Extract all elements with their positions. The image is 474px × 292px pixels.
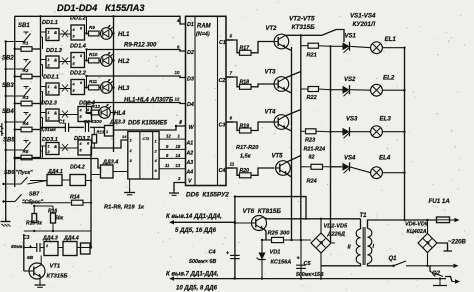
svg-text:R2: R2 xyxy=(23,68,29,73)
svg-text:Q1: Q1 xyxy=(389,256,398,262)
svg-text:11: 11 xyxy=(230,162,235,167)
net label ~220V xyxy=(448,240,467,246)
wire bus x91 xyxy=(90,146,92,248)
svg-text:A3: A3 xyxy=(186,160,194,166)
wire VT2 collector xyxy=(286,30,344,43)
svg-text:SB2: SB2 xyxy=(2,56,14,62)
wire DD5 out4 xyxy=(159,163,185,169)
svg-text:R17-R20: R17-R20 xyxy=(236,145,259,151)
resistor R10 xyxy=(85,52,99,63)
resistor R15 xyxy=(26,206,42,227)
resistor R2 xyxy=(14,68,41,79)
gate DD1.4 xyxy=(59,44,87,68)
wire left bus A xyxy=(5,42,7,222)
net label HL1 xyxy=(118,32,130,38)
svg-text:R9: R9 xyxy=(89,25,95,30)
resistor R13 xyxy=(92,127,105,148)
part label VS1-VS4 KU201L xyxy=(350,13,376,29)
svg-text:14: 14 xyxy=(122,134,127,139)
svg-text:D2: D2 xyxy=(187,50,194,56)
ground rail symbol xyxy=(433,277,447,285)
wire gate row 1 output xyxy=(85,16,87,33)
wire DD5 out2 xyxy=(159,144,185,150)
net label HL3 xyxy=(118,86,130,92)
svg-text:VS3: VS3 xyxy=(346,117,358,123)
svg-text:D1: D1 xyxy=(187,22,194,28)
svg-text:4: 4 xyxy=(176,18,180,23)
wire gate input bus xyxy=(40,16,42,158)
lamp EL3 xyxy=(350,116,406,138)
switch Q2 xyxy=(430,266,460,284)
resistor R22 xyxy=(301,87,331,102)
resistor R25 xyxy=(261,231,311,243)
svg-text:R9-R12 300: R9-R12 300 xyxy=(124,43,157,49)
svg-text:VT2: VT2 xyxy=(266,26,278,32)
svg-text:C4: C4 xyxy=(209,250,217,256)
part label VD6-VD9 xyxy=(405,222,428,236)
wire cathode bus xyxy=(329,45,331,242)
wire DD5 out3 xyxy=(159,153,185,159)
svg-text:(N=4): (N=4) xyxy=(196,32,210,38)
svg-text:КТ315Б: КТ315Б xyxy=(292,24,316,31)
svg-text:&: & xyxy=(54,85,57,90)
svg-text:1: 1 xyxy=(48,85,50,89)
resistor R17 xyxy=(240,46,252,56)
svg-text:"Сброс": "Сброс" xyxy=(22,199,44,206)
svg-text:R13: R13 xyxy=(97,130,105,135)
svg-text:R4: R4 xyxy=(23,121,29,126)
svg-text:RAM: RAM xyxy=(197,24,212,30)
net label HL4 xyxy=(114,111,126,117)
gate DD4.2 xyxy=(62,165,91,186)
wire C1 to R17 xyxy=(226,34,275,53)
switch Q1 xyxy=(389,256,456,267)
net label 5 DD5 16 DD6 xyxy=(175,228,217,234)
svg-text:&: & xyxy=(54,111,57,116)
wire emitter bus xyxy=(286,47,293,241)
value label R17-R20 1,5k xyxy=(236,145,259,160)
LED HL3 xyxy=(99,79,115,93)
svg-text:DD1.3: DD1.3 xyxy=(46,48,63,54)
svg-text:SB6 "Пуск": SB6 "Пуск" xyxy=(4,170,33,176)
svg-text:5 ДД5, 16 ДД6: 5 ДД5, 16 ДД6 xyxy=(175,228,217,234)
svg-text:D3: D3 xyxy=(187,77,194,83)
svg-text:VS1-VS4: VS1-VS4 xyxy=(350,13,376,20)
svg-text:VT1: VT1 xyxy=(50,264,61,270)
svg-text:R25 300: R25 300 xyxy=(268,231,291,237)
svg-text:DD5 К155ИЕ5: DD5 К155ИЕ5 xyxy=(128,121,168,127)
LED HL1 xyxy=(99,25,115,39)
svg-text:9: 9 xyxy=(230,116,233,121)
svg-text:КУ201Л: КУ201Л xyxy=(353,21,376,28)
svg-text:VS4: VS4 xyxy=(344,156,356,162)
svg-text:SB5: SB5 xyxy=(3,138,15,144)
svg-text:0,01мк: 0,01мк xyxy=(41,127,57,133)
svg-text:500мк× 6В: 500мк× 6В xyxy=(189,259,216,265)
svg-text:7: 7 xyxy=(230,71,233,76)
switch SB2 xyxy=(2,56,31,71)
wire winding II top xyxy=(360,219,362,229)
LED HL2 xyxy=(99,52,115,66)
wire lamp bus xyxy=(404,48,406,220)
svg-text:SB3: SB3 xyxy=(2,83,14,89)
svg-text:2: 2 xyxy=(177,176,181,181)
wire row3 to D3 xyxy=(85,75,185,78)
gate DD3.2 xyxy=(59,136,92,155)
value label HL1-HL4 AL307B xyxy=(124,98,174,104)
switch SB3 xyxy=(2,83,31,97)
svg-text:10: 10 xyxy=(175,70,180,75)
wire gate row 3 output xyxy=(85,76,87,88)
ref label DD6 K155RU2 xyxy=(186,192,229,199)
fuse FU1 1A xyxy=(429,198,460,223)
switch SB6 Pusk xyxy=(2,170,47,185)
svg-text:C1: C1 xyxy=(59,120,66,126)
resistor R12 xyxy=(85,104,100,115)
ground mark mid-left xyxy=(0,123,3,136)
svg-text:R22: R22 xyxy=(307,95,318,101)
svg-text:1: 1 xyxy=(48,111,50,115)
resistor R23 xyxy=(301,129,331,144)
svg-text:1: 1 xyxy=(46,244,48,248)
svg-text:&: & xyxy=(54,58,57,63)
svg-text:DD2.1: DD2.1 xyxy=(43,75,59,81)
svg-text:~220В: ~220В xyxy=(448,240,467,246)
part label VT2-VT5 KT315B xyxy=(289,16,315,32)
wire +5V rail xyxy=(235,197,307,220)
svg-text:VT3: VT3 xyxy=(265,70,277,76)
pin numbers DD6 left xyxy=(175,18,183,181)
transformer T1 xyxy=(348,213,375,265)
wire W stub xyxy=(176,125,186,127)
transistor VT6 xyxy=(234,216,267,231)
svg-text:R5: R5 xyxy=(23,149,29,154)
wire top supply rail xyxy=(263,217,360,233)
svg-text:DD6 К155РУ2: DD6 К155РУ2 xyxy=(186,192,229,199)
svg-text:1: 1 xyxy=(48,145,50,149)
gate DD3.1 xyxy=(41,137,60,158)
svg-text:КЦ402А: КЦ402А xyxy=(407,229,427,235)
value label 50mk 6V xyxy=(11,244,34,261)
wire DD5 out1 xyxy=(159,134,185,140)
capacitor C4 xyxy=(189,250,240,266)
svg-text:SB4: SB4 xyxy=(2,109,14,115)
svg-text:R1: R1 xyxy=(23,41,29,46)
svg-text:SB1: SB1 xyxy=(18,23,30,29)
svg-text:II: II xyxy=(348,245,352,251)
gate DD1.2 xyxy=(59,16,87,41)
svg-text:11: 11 xyxy=(165,163,170,168)
svg-text:DD2.2: DD2.2 xyxy=(70,71,87,77)
svg-text:DD2.3: DD2.3 xyxy=(41,101,58,107)
svg-text:5: 5 xyxy=(230,34,233,39)
svg-text:VT2-VT5: VT2-VT5 xyxy=(289,16,315,23)
wire C2 to R18 xyxy=(226,71,275,87)
svg-text:КС156А: КС156А xyxy=(271,260,292,266)
svg-text:HL3: HL3 xyxy=(118,86,130,92)
svg-text:ДД3.3: ДД3.3 xyxy=(109,120,125,126)
gate DD2.2 xyxy=(59,71,87,95)
svg-text:ДД4.3: ДД4.3 xyxy=(42,236,58,242)
lamp EL1 xyxy=(350,36,406,54)
wire gate row 4 output xyxy=(87,103,92,114)
svg-text:R1-R8, R19 1к: R1-R8, R19 1к xyxy=(104,205,145,211)
svg-text:VS1: VS1 xyxy=(345,34,357,40)
wire winding I bottom xyxy=(368,264,394,266)
svg-text:VT6 КТ815Б: VT6 КТ815Б xyxy=(243,208,282,215)
svg-text:C2 3300: C2 3300 xyxy=(84,119,102,125)
svg-text:DD4.2: DD4.2 xyxy=(70,165,85,171)
svg-text:D4: D4 xyxy=(187,102,194,108)
svg-text:HL1-HL4 АЛ307Б: HL1-HL4 АЛ307Б xyxy=(124,98,174,104)
svg-text:A4: A4 xyxy=(186,170,194,176)
bridge VD2-VD5 xyxy=(311,221,348,279)
gate DD4.3 xyxy=(42,236,58,256)
svg-text:HL1: HL1 xyxy=(118,32,130,38)
wire C1-C2 row xyxy=(41,126,105,128)
wire bridge to winding II xyxy=(0,0,1,1)
resistor R1 xyxy=(14,41,41,52)
gate DD2.3 xyxy=(41,101,60,130)
svg-text:DD1.1: DD1.1 xyxy=(42,20,58,26)
wire to pin14 arrow xyxy=(169,220,235,224)
resistor R5 xyxy=(14,149,41,160)
svg-text:&: & xyxy=(54,144,57,149)
wire left bus B xyxy=(14,16,16,187)
resistor R4 xyxy=(14,121,41,132)
net label K vyv.7 xyxy=(166,272,219,278)
svg-text:VT4: VT4 xyxy=(265,110,277,116)
svg-text:C1: C1 xyxy=(219,40,226,46)
switch SB7 Sbros xyxy=(2,192,43,206)
wire DD3.2 to DD5 C xyxy=(92,134,128,148)
thyristor VS4 xyxy=(331,156,357,174)
net label K vyv.14 xyxy=(166,214,222,220)
svg-text:КТ315Б: КТ315Б xyxy=(47,274,68,280)
wire R16 bottom row xyxy=(24,230,91,232)
capacitor C1 xyxy=(41,120,69,133)
svg-text:V: V xyxy=(188,179,192,185)
svg-text:HL4: HL4 xyxy=(114,111,126,117)
wire 220V terminal xyxy=(437,243,452,251)
capacitor C5 xyxy=(296,240,324,279)
gate DD1.3 xyxy=(41,48,63,77)
LED HL4 xyxy=(99,104,115,118)
svg-text:1: 1 xyxy=(48,58,50,62)
svg-text:82: 82 xyxy=(309,155,315,161)
junction dots xyxy=(14,15,115,249)
svg-text:C5: C5 xyxy=(304,261,312,267)
svg-text:12: 12 xyxy=(175,97,180,102)
wire C3 to R19 xyxy=(226,116,275,131)
transistor VT4 xyxy=(265,110,289,130)
capacitor C2 xyxy=(84,119,102,132)
net label HL2 xyxy=(118,59,130,65)
gate DD3.4 xyxy=(91,160,128,179)
ground DD5 xyxy=(124,179,135,195)
zener VD1 xyxy=(257,240,292,279)
svg-text:10 ДД5, 8 ДД6: 10 ДД5, 8 ДД6 xyxy=(176,286,218,292)
resistor R3 xyxy=(14,95,41,106)
bridge VD6-VD9 xyxy=(418,219,437,266)
wire winding I top xyxy=(368,219,437,229)
svg-text:C4: C4 xyxy=(219,168,226,174)
ground VT1 emitter xyxy=(35,278,46,288)
svg-text:15: 15 xyxy=(176,144,181,149)
svg-text:50мк: 50мк xyxy=(11,244,23,250)
switch SB4 xyxy=(2,109,31,123)
switch SB5 xyxy=(3,138,31,152)
svg-text:R10: R10 xyxy=(89,52,98,57)
wire LED cathode bus xyxy=(113,16,115,152)
transistor VT1 xyxy=(24,256,68,280)
svg-text:R21: R21 xyxy=(307,53,317,59)
resistor R20 xyxy=(240,168,252,178)
svg-text:13: 13 xyxy=(176,163,181,168)
resistor R14 xyxy=(22,195,91,206)
svg-text:VD2-VD5: VD2-VD5 xyxy=(324,224,349,230)
switch SB1 xyxy=(5,23,31,43)
transistor VT5 xyxy=(272,154,291,176)
svg-text:500мк×15В: 500мк×15В xyxy=(296,272,324,278)
gate DD1.1 xyxy=(41,20,60,49)
svg-text:A2: A2 xyxy=(186,151,194,157)
resistor R11 xyxy=(85,79,99,90)
wire VT6 collector rail xyxy=(0,0,1,1)
svg-text:CT2: CT2 xyxy=(143,137,150,141)
svg-text:DD1.4: DD1.4 xyxy=(70,44,87,50)
svg-text:1,5к: 1,5к xyxy=(240,154,252,160)
wire Q1 arrow xyxy=(454,264,459,268)
wire winding II bottom xyxy=(321,264,361,266)
resistor R9 xyxy=(85,25,99,36)
svg-text:HL2: HL2 xyxy=(118,59,130,65)
value label R1-R8 R19 1k xyxy=(104,205,145,211)
resistor R21 xyxy=(301,43,331,58)
wire Vcc vertical xyxy=(234,195,236,278)
wire gate row 2 output xyxy=(85,50,87,61)
svg-text:50к: 50к xyxy=(55,216,64,222)
capacitor C3 xyxy=(23,235,44,252)
net label DD1-DD4 K155LA3 xyxy=(57,3,145,13)
svg-text:SB7: SB7 xyxy=(29,192,40,198)
gate DD2.1 xyxy=(41,75,60,104)
svg-text:DD1.2: DD1.2 xyxy=(70,16,87,22)
svg-text:R24: R24 xyxy=(307,179,318,185)
svg-text:C3: C3 xyxy=(219,123,226,129)
wire ground rail xyxy=(169,276,446,280)
wire row4 to D4 xyxy=(85,101,185,103)
svg-text:EL1: EL1 xyxy=(385,36,397,43)
thyristor VS3 xyxy=(331,117,359,139)
gate DD4.4 xyxy=(58,236,91,256)
wire C4 to R20 xyxy=(226,162,275,176)
wire VT1 base bus xyxy=(24,234,37,271)
transistor VT3 xyxy=(265,70,289,92)
svg-text:1: 1 xyxy=(106,130,108,134)
ground DD6 V xyxy=(169,183,186,196)
svg-text:R3: R3 xyxy=(23,95,29,100)
svg-text:A1: A1 xyxy=(186,141,194,147)
wire VT6 emitter xyxy=(263,229,266,240)
thyristor VS1 xyxy=(331,34,357,53)
wire DD3.3 to W xyxy=(114,120,186,130)
svg-text:EL3: EL3 xyxy=(380,116,392,123)
svg-text:6В: 6В xyxy=(27,255,34,261)
gate DD4.1 xyxy=(30,169,63,186)
part label VT6 KT815B xyxy=(243,208,282,215)
svg-text:R21-R24: R21-R24 xyxy=(304,147,326,153)
svg-text:DD1-DD4 К155ЛА3: DD1-DD4 К155ЛА3 xyxy=(57,3,145,13)
svg-text:R15 3к: R15 3к xyxy=(26,221,42,227)
svg-text:+: + xyxy=(226,251,229,257)
gate DD2.4 xyxy=(59,101,96,122)
thyristor VS2 xyxy=(331,77,357,96)
svg-text:14: 14 xyxy=(176,153,181,158)
wire row5 under xyxy=(15,159,101,169)
value label R21-R24 82 xyxy=(304,147,326,161)
lamp EL2 xyxy=(350,75,406,97)
transistor VT2 xyxy=(266,26,289,49)
value label R9-R12 300 xyxy=(124,43,157,49)
svg-text:T1: T1 xyxy=(360,213,368,219)
wire collector bus xyxy=(286,34,302,241)
resistor R24 xyxy=(301,164,341,184)
svg-text:Д226Д: Д226Д xyxy=(327,232,345,238)
svg-text:R23: R23 xyxy=(305,138,316,144)
svg-text:VD1: VD1 xyxy=(270,250,281,256)
wire R15 top xyxy=(33,205,53,207)
resistor R16 xyxy=(48,206,64,231)
gate DD3.3 xyxy=(105,120,126,137)
svg-text:&: & xyxy=(54,30,57,35)
svg-text:1: 1 xyxy=(48,31,50,35)
wire row2 to D2 xyxy=(85,48,185,51)
resistor R18 xyxy=(240,80,252,90)
resistor R19 xyxy=(240,123,252,133)
svg-text:C2: C2 xyxy=(219,78,226,84)
svg-text:EL4: EL4 xyxy=(379,155,391,162)
svg-text:EL2: EL2 xyxy=(383,75,395,82)
svg-text:R11: R11 xyxy=(89,79,98,84)
lamp EL4 xyxy=(350,155,406,179)
net label 10 DD5 8 DD6 xyxy=(176,286,218,292)
ground left bus xyxy=(1,218,11,227)
IC DD6 K155RU2 RAM xyxy=(186,16,227,185)
wire top row1 to D1 xyxy=(15,16,186,24)
svg-text:VS2: VS2 xyxy=(344,77,356,83)
svg-text:FU1 1А: FU1 1А xyxy=(429,198,451,205)
counter DD5 K155IE5 xyxy=(128,121,168,180)
svg-text:К выв.14 ДД1-ДД4,: К выв.14 ДД1-ДД4, xyxy=(166,214,222,220)
